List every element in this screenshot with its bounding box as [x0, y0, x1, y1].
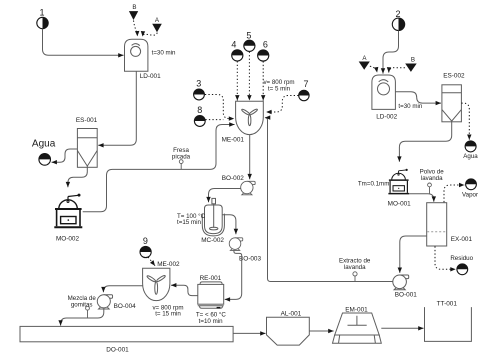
svg-text:Residuo: Residuo	[450, 255, 473, 262]
label Mezcla de gomitas	[68, 295, 97, 318]
wire MO-001 to EX-001 (polvo de lavanda line)	[409, 194, 434, 202]
node 3	[194, 79, 205, 100]
svg-text:LD-002: LD-002	[376, 113, 397, 120]
wire MC-002 to BO-003	[222, 215, 236, 234]
svg-text:t=30 min: t=30 min	[152, 49, 176, 56]
node Residuo outlet	[450, 255, 473, 274]
wire dotted node7 to ME-001	[266, 96, 298, 113]
label Extracto de lavanda	[339, 257, 371, 281]
mixer ME-001	[236, 101, 264, 134]
svg-text:BO-002: BO-002	[222, 175, 244, 182]
svg-text:AL-001: AL-001	[281, 311, 302, 318]
svg-text:Vapor: Vapor	[462, 192, 478, 199]
svg-text:9: 9	[143, 236, 148, 246]
strainer ES-002	[442, 85, 462, 122]
node 7	[299, 79, 309, 101]
svg-text:BO-003: BO-003	[239, 255, 261, 262]
feeder AL-001	[267, 317, 310, 345]
strainer ES-001	[77, 129, 97, 168]
wire dotted node6 to ME-001	[262, 61, 264, 100]
pump BO-003	[229, 238, 243, 251]
node 5	[244, 30, 255, 51]
wire dotted node9 to ME-002	[148, 257, 155, 266]
wire stream1 to LD-001	[43, 29, 124, 56]
wire BO-002 to MC-002	[209, 189, 241, 203]
wire EX-001 to BO-001	[400, 236, 427, 273]
svg-text:ME-002: ME-002	[157, 261, 180, 268]
svg-text:Tm=0.1mm: Tm=0.1mm	[358, 180, 389, 187]
svg-text:MO-001: MO-001	[388, 201, 412, 208]
grinder MO-001	[388, 169, 409, 194]
node Agua right outlet	[463, 141, 478, 160]
svg-text:t=30 min: t=30 min	[398, 103, 422, 110]
extractor EX-001	[427, 203, 447, 246]
label Polvo de lavanda	[420, 169, 445, 194]
triangle B (additive B for LD-001)	[129, 4, 138, 20]
node Vapor outlet	[462, 179, 478, 199]
wire ES-001 to MO-002	[68, 166, 87, 187]
wire ME-001 to BO-002	[249, 135, 251, 180]
triangle B (additive B for LD-002)	[405, 57, 417, 72]
svg-text:BO-001: BO-001	[395, 292, 417, 299]
wire ES-001 to Agua left	[52, 149, 78, 162]
washer LD-002	[372, 75, 396, 109]
svg-text:3: 3	[196, 79, 201, 89]
pump BO-004	[97, 295, 112, 309]
node 8	[194, 105, 205, 126]
svg-text:2: 2	[395, 9, 400, 19]
svg-text:Agua: Agua	[32, 138, 56, 149]
svg-text:t=15 min: t=15 min	[177, 219, 201, 226]
tank TT-001	[425, 307, 472, 341]
node 1 (stream 1 inlet)	[37, 7, 48, 28]
svg-text:t=10 min: t=10 min	[199, 318, 223, 325]
node 6	[258, 39, 269, 61]
svg-text:MO-002: MO-002	[56, 235, 80, 242]
svg-text:RE-001: RE-001	[200, 275, 222, 282]
node Agua left outlet	[32, 138, 56, 165]
heat exchanger RE-001	[198, 282, 224, 309]
wire LD-001 to ES-001	[98, 71, 136, 145]
svg-text:EM-001: EM-001	[345, 306, 368, 313]
svg-text:B: B	[132, 4, 136, 11]
svg-text:DO-001: DO-001	[106, 347, 129, 354]
wire ME-002 to BO-004	[103, 286, 142, 293]
wire LD-002 to ES-002	[395, 92, 441, 103]
svg-text:ES-002: ES-002	[443, 73, 465, 80]
dryer DO-001	[20, 326, 233, 341]
node 2 (stream 2 inlet)	[392, 9, 404, 31]
svg-text:BO-004: BO-004	[114, 303, 136, 310]
svg-text:8: 8	[197, 105, 202, 115]
svg-text:lavanda: lavanda	[344, 264, 366, 271]
wire AL-001 to EM-001	[309, 330, 333, 332]
svg-text:6: 6	[263, 39, 268, 49]
wire DO-001 to AL-001	[233, 332, 266, 334]
wire BO-004 to DO-001	[61, 308, 104, 325]
wire MO-002 to ME-001 (fresa picada line)	[83, 125, 235, 212]
node 4	[231, 39, 243, 61]
wire dotted B to LD-002	[389, 68, 405, 73]
svg-text:B: B	[411, 57, 415, 64]
wire dotted EX-001 to Vapor	[444, 185, 464, 202]
wire dotted node8 join	[205, 119, 223, 121]
molder EM-001	[333, 313, 382, 343]
svg-text:t= 5 min: t= 5 min	[268, 85, 291, 92]
triangle A (additive A for LD-002)	[359, 55, 370, 70]
wire BO-001 to ME-001 (extracto de lavanda line)	[265, 118, 393, 282]
svg-text:ES-001: ES-001	[76, 117, 98, 124]
wire dotted EX-001 to Residuo	[435, 246, 456, 269]
wire dotted A to LD-002	[370, 66, 377, 72]
wire BO-003 to RE-001	[225, 251, 242, 300]
svg-text:5: 5	[246, 30, 251, 40]
svg-text:lavanda: lavanda	[421, 175, 443, 182]
svg-text:t= 15 min: t= 15 min	[155, 311, 181, 318]
label Fresa picada	[172, 147, 191, 169]
svg-text:1: 1	[39, 7, 44, 17]
wire RE-001 to ME-002	[171, 285, 198, 295]
kettle MC-002	[202, 198, 224, 236]
node 9	[140, 236, 151, 258]
triangle A (additive A for LD-001)	[152, 17, 162, 32]
svg-text:TT-001: TT-001	[437, 300, 458, 307]
svg-text:EX-001: EX-001	[451, 236, 473, 243]
wire dotted B to LD-001	[134, 21, 138, 37]
svg-text:7: 7	[303, 79, 308, 89]
svg-text:LD-001: LD-001	[140, 73, 161, 80]
wire dotted ES-002 to Agua right	[461, 103, 469, 140]
wire EM-001 to TT-001	[381, 327, 423, 329]
wire ES-002 to MO-001	[399, 121, 451, 162]
svg-text:4: 4	[231, 39, 236, 49]
wire dotted A to LD-001	[143, 33, 158, 37]
pump BO-001	[393, 275, 409, 290]
wire dotted node5 to ME-001	[248, 52, 250, 101]
mixer ME-002	[143, 268, 170, 300]
svg-text:ME-001: ME-001	[222, 136, 245, 143]
wire dotted node4 to ME-001	[236, 61, 238, 100]
pump BO-002	[241, 181, 255, 194]
wire dotted node3 to ME-001	[205, 95, 234, 119]
washer LD-001	[125, 39, 148, 71]
wire stream2 to LD-002	[383, 31, 399, 74]
svg-text:Agua: Agua	[463, 153, 478, 160]
svg-text:MC-002: MC-002	[201, 237, 224, 244]
grinder MO-002	[54, 194, 82, 228]
